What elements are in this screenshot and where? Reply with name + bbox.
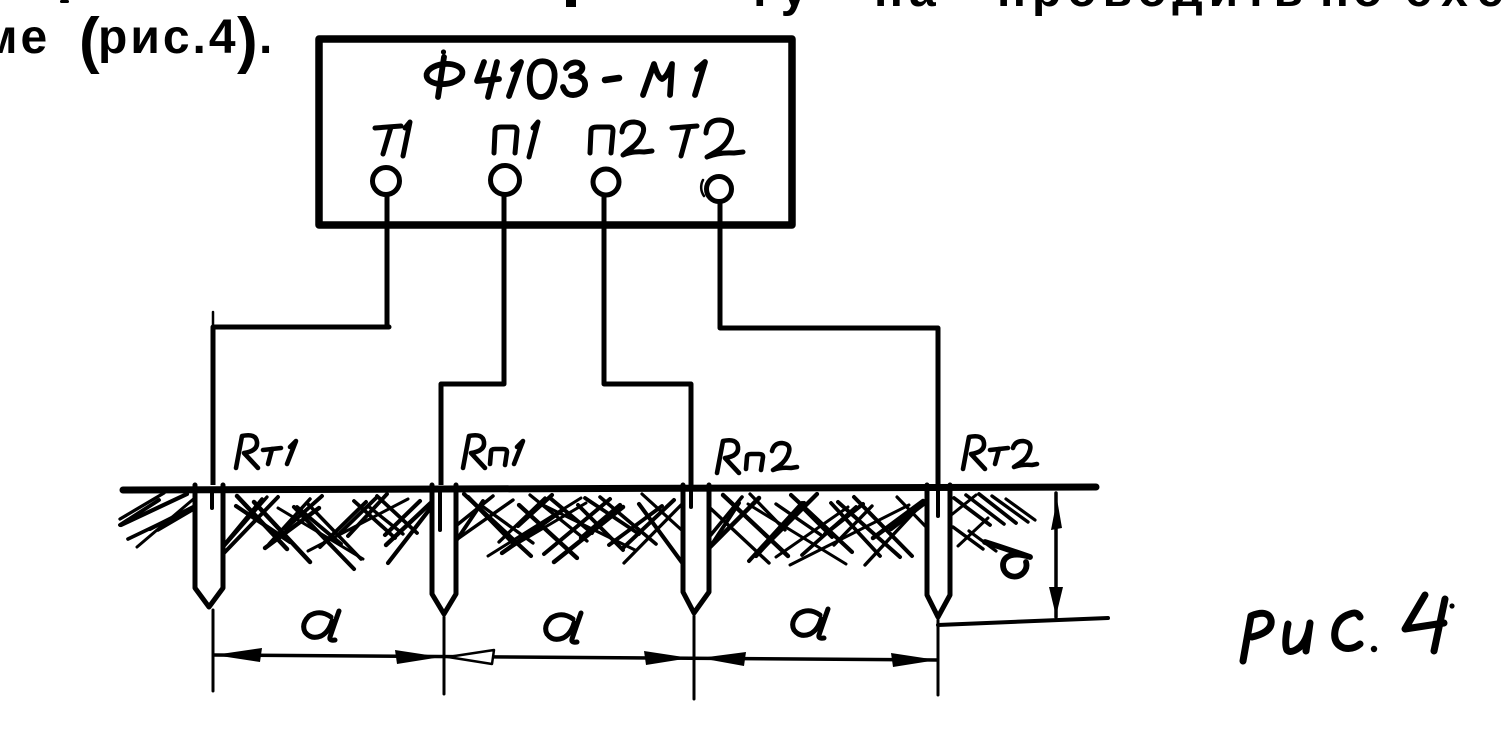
wire stub into electrode Rп1 xyxy=(438,489,442,530)
wire stub into electrode Rт1 xyxy=(210,489,214,508)
axis line below Rп2 xyxy=(693,616,696,699)
1 xyxy=(509,62,521,96)
1 xyxy=(695,62,705,95)
dimension line a-a-a xyxy=(214,655,937,660)
title Ф4103-М1 (handwritten) xyxy=(426,49,705,97)
label П1 xyxy=(494,127,517,153)
label Rп2 xyxy=(717,440,797,473)
svg-text:тунапроводитьпосхе: тунапроводитьпосхе xyxy=(748,0,1504,17)
arrowhead at node Rт1 axis (left end) xyxy=(214,648,262,662)
terminal T1 xyxy=(373,168,400,195)
label a (2) xyxy=(546,613,581,642)
М xyxy=(643,64,672,95)
d dimension up arrowhead xyxy=(1051,499,1062,530)
electrode Rт2 xyxy=(927,485,950,617)
label a (3) xyxy=(793,609,828,638)
caption Рис. 4 xyxy=(1243,595,1455,661)
label a (1) xyxy=(304,611,339,640)
wire stub into electrode Rт2 xyxy=(936,489,940,516)
arrowhead right-pointing at node Rп1 axis xyxy=(395,650,441,664)
d dimension down arrowhead xyxy=(1049,587,1063,616)
terminal П1 xyxy=(491,166,520,195)
svg-text:ме(рис.4).: ме(рис.4). xyxy=(0,6,275,75)
terminal T2 xyxy=(707,177,732,202)
stray ink marks along top edge xyxy=(60,0,69,3)
axis line below Rт2 xyxy=(937,620,940,695)
electrode Rт1 xyxy=(195,485,223,607)
4 xyxy=(477,62,499,81)
wire T1 to electrode Rт1 xyxy=(213,327,389,489)
instrument box Ф4103-М1 xyxy=(319,39,792,225)
3 xyxy=(563,62,585,95)
wire П2 xyxy=(604,196,691,489)
Ф xyxy=(441,49,446,54)
terminal labels xyxy=(375,120,743,157)
0 xyxy=(530,61,555,97)
label Rт1 xyxy=(236,435,296,468)
electrode Rп1 xyxy=(432,485,456,614)
label Rт2 xyxy=(963,436,1037,469)
label Rп1 xyxy=(463,435,523,468)
arrowhead left-pointing at node Rп2 axis xyxy=(700,652,746,666)
arrowhead right-pointing at node Rп2 axis xyxy=(644,651,690,665)
ground surface line xyxy=(123,487,1096,490)
wire T1 corner overshoot tick xyxy=(212,312,215,326)
soil hatching xyxy=(120,493,1035,569)
terminal П2 xyxy=(593,169,619,195)
label d (rotated handwritten) xyxy=(985,542,1030,577)
axis line below Rп1 xyxy=(443,617,446,694)
wire T1 vertical from terminal xyxy=(385,195,390,327)
wire stub into electrode Rп2 xyxy=(689,489,693,507)
d dimension line xyxy=(1054,493,1058,617)
label П2 xyxy=(590,127,613,153)
label T1 xyxy=(375,126,401,128)
wire П1 xyxy=(441,195,504,489)
arrowhead at node Rт2 axis (right end) xyxy=(891,653,937,667)
bottom reference line of d xyxy=(938,618,1108,625)
hyphen xyxy=(605,78,619,80)
terminal T2 double-drawn arc xyxy=(701,180,704,196)
cut-off printed text line at very top xyxy=(0,0,1504,75)
wire T2 xyxy=(720,202,938,489)
electrode Rп2 xyxy=(683,485,709,613)
hollow arrowhead left-pointing at node Rп1 axis xyxy=(448,650,494,664)
axis line below Rт1 xyxy=(212,610,215,691)
label T2 xyxy=(672,126,697,128)
